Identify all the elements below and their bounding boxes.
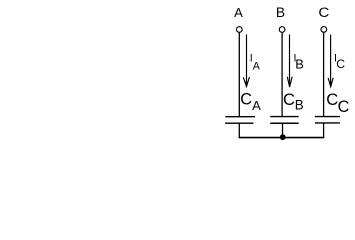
svg-text:B: B — [276, 5, 285, 20]
svg-text:B: B — [295, 57, 304, 72]
svg-text:C: C — [336, 57, 345, 71]
capacitor C_A top plate — [225, 116, 255, 118]
wire B stub (capacitor to bus) — [282, 123, 284, 138]
capacitor C_B top plate — [270, 116, 299, 118]
capacitor C_C bottom plate — [315, 122, 340, 124]
svg-text:C: C — [283, 90, 295, 109]
current arrow I_C — [328, 35, 333, 87]
svg-text:A: A — [252, 98, 261, 113]
wire C stub (capacitor to bus) — [323, 123, 325, 138]
capacitor C_A bottom plate — [225, 122, 253, 124]
junction node dot — [280, 134, 286, 140]
svg-text:C: C — [326, 90, 338, 109]
svg-text:C: C — [318, 5, 329, 20]
current arrow I_B — [287, 35, 292, 88]
capacitor C_C top plate — [315, 116, 340, 118]
svg-text:C: C — [240, 91, 252, 109]
wire C (terminal to capacitor) — [323, 32, 325, 116]
wire A (terminal to capacitor) — [238, 32, 240, 116]
terminal A — [236, 27, 242, 33]
node C label — [318, 5, 329, 20]
wire A stub (capacitor to bus) — [238, 123, 240, 138]
terminal B — [279, 27, 285, 33]
current arrow I_A — [243, 35, 249, 87]
svg-text:C: C — [338, 98, 350, 116]
wire B (terminal to capacitor) — [281, 32, 283, 116]
svg-text:A: A — [253, 61, 261, 73]
svg-text:B: B — [295, 98, 304, 113]
capacitor C_B bottom plate — [270, 122, 299, 124]
bus wire (common neutral) — [239, 137, 325, 139]
svg-text:A: A — [234, 5, 243, 20]
terminal C — [321, 27, 327, 33]
